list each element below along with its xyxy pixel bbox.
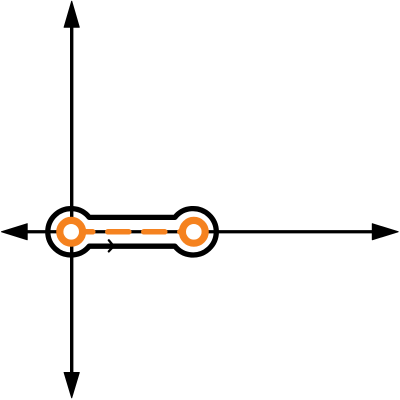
x-axis arrowhead left <box>2 224 28 240</box>
x-axis line <box>24 230 376 233</box>
joint A pin (left orange donut) <box>60 220 83 243</box>
y-axis arrowhead up <box>64 1 79 27</box>
x-axis arrowhead right <box>372 224 398 240</box>
joint B pin (right orange donut) <box>182 220 205 243</box>
direction arrow marker on link bottom edge <box>109 240 114 251</box>
y-axis arrowhead down <box>64 373 79 398</box>
link body (two pin circles joined by bar) <box>48 209 216 255</box>
link centerline (orange dashed) <box>72 229 194 235</box>
y-axis line <box>70 24 73 376</box>
